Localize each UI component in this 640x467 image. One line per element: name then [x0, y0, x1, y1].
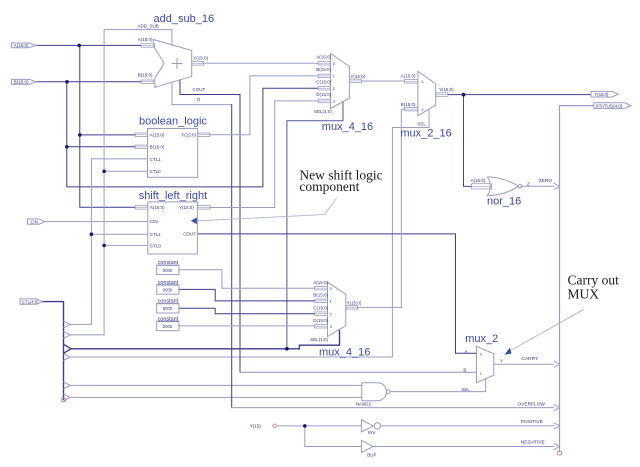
junction Y result node — [462, 93, 466, 97]
svg-text:B(15:0): B(15:0) — [316, 67, 331, 72]
wire mux_2_16 Y to Y(15:0) port and nor_16 — [448, 95, 591, 187]
svg-text:0000: 0000 — [163, 306, 173, 311]
adder add_sub_16 body — [153, 40, 191, 88]
svg-text:B(15:0): B(15:0) — [14, 80, 29, 85]
wire mux_4_16 bottom Y to mux_2_16 B — [358, 109, 405, 307]
wire CTL tap to NAND2 input B — [70, 396, 362, 398]
wire CTL(4:0) port to bus — [43, 302, 64, 400]
status tap CARRY — [554, 361, 560, 367]
svg-text:mux_2: mux_2 — [465, 333, 498, 345]
NAND2 gate body — [362, 383, 387, 401]
svg-text:MUX: MUX — [568, 287, 600, 302]
status tap ZERO — [554, 183, 560, 189]
svg-text:add_sub_16: add_sub_16 — [154, 13, 215, 25]
wire constant2 to mux_4_16 B — [179, 289, 315, 301]
block shift_left_right — [148, 202, 198, 254]
mux_4_16 U1 pin C(15:0) — [316, 80, 336, 92]
svg-text:B(15:0): B(15:0) — [150, 145, 165, 150]
wire SEL riser to mux_4_16 top SEL — [287, 102, 343, 349]
wire add_sub Y to mux_4_16 A — [204, 62, 319, 64]
junction CTL1 riser at shift CTL1 — [90, 232, 94, 236]
nor_16 gate body — [487, 177, 518, 196]
wire shift COUT to mux_2 A — [197, 234, 476, 353]
svg-text:C(15:0): C(15:0) — [313, 305, 329, 310]
svg-text:Y(15:0): Y(15:0) — [595, 92, 609, 97]
svg-text:STATUS(4:0): STATUS(4:0) — [596, 103, 623, 108]
constant 3 — [157, 299, 179, 313]
svg-text:COUT: COUT — [193, 87, 206, 92]
mux_4_16 U2 pin D(15:0) — [313, 318, 332, 329]
svg-text:A(15:0): A(15:0) — [138, 37, 153, 42]
shift pin Y(15:0) — [179, 205, 210, 210]
status tap NEGATIVE — [554, 443, 560, 449]
nor_16 pin A(15:0) — [471, 178, 492, 189]
STATUS bus vertical — [560, 106, 594, 452]
svg-text:component: component — [299, 179, 359, 194]
svg-text:BUF: BUF — [367, 453, 376, 458]
mux_4_16 U2 pin A(15:0) — [313, 280, 332, 291]
adder plus sign — [172, 58, 183, 69]
svg-text:O: O — [197, 97, 201, 102]
constant 2 — [157, 280, 179, 294]
wire CTL tap to mux_2_16 SEL — [70, 109, 429, 357]
status tap OVERFLOW — [554, 404, 560, 410]
svg-text:Y(15:0): Y(15:0) — [193, 55, 208, 60]
mux_4_16 U1 pin D(15:0) — [316, 92, 336, 104]
mux_4_16 U2 pin C(15:0) — [313, 305, 332, 316]
junction CTL0 riser at boolean CTL0 — [102, 170, 106, 174]
output port Y(15:0) — [591, 91, 618, 97]
svg-text:Carry out: Carry out — [568, 272, 620, 287]
svg-text:SEL: SEL — [417, 122, 426, 127]
annotation leader to shift block — [197, 198, 337, 221]
svg-text:D(15:0): D(15:0) — [313, 318, 329, 323]
wire A net riser to boolean A and shift A — [80, 45, 136, 207]
junction B riser at boolean B — [65, 145, 69, 149]
svg-text:CIN: CIN — [31, 219, 38, 224]
svg-text:mux_2_16: mux_2_16 — [400, 128, 451, 140]
Y(15) dangling circle — [273, 424, 277, 428]
bus tap NAND A — [64, 382, 71, 389]
INV gate body — [361, 420, 373, 432]
mux_4_16 U2 body — [328, 282, 346, 336]
bus tap SEL(1:0) — [64, 344, 72, 353]
svg-text:B: B — [463, 367, 466, 372]
svg-text:Y(15:0): Y(15:0) — [179, 205, 194, 210]
svg-text:B(15:0): B(15:0) — [313, 293, 328, 298]
CTL bus dangling end marker — [62, 398, 66, 401]
status tap POSITIVE — [554, 423, 560, 429]
svg-text:A: A — [465, 349, 468, 354]
svg-text:POSITIVE: POSITIVE — [521, 419, 543, 425]
block boolean_logic — [148, 129, 198, 178]
junction CTL0 riser at shift CTL0 — [102, 244, 106, 248]
bus tap CTL to mux_2_16 SEL — [64, 354, 71, 361]
svg-text:C(15:0): C(15:0) — [316, 80, 332, 85]
svg-text:NAND2: NAND2 — [356, 401, 372, 406]
INV output bubble — [374, 423, 380, 429]
wire mux_2 Y to CARRY tap — [494, 363, 554, 365]
svg-text:ZERO: ZERO — [539, 178, 553, 184]
svg-text:nor_16: nor_16 — [487, 196, 521, 208]
svg-text:A(15:0): A(15:0) — [150, 133, 165, 138]
annotation arrow at mux_2 — [505, 348, 512, 355]
wire mux_4_16 Y to mux_2_16 A — [362, 80, 405, 82]
mux_4_16 U1 body — [331, 54, 350, 109]
adder pin B(15:0) — [138, 72, 154, 83]
bus tap NAND B — [64, 394, 71, 401]
svg-text:0000: 0000 — [163, 324, 173, 329]
mux_2_16 pin Y(15:0) — [436, 87, 454, 96]
wire constant3 to mux_4_16 C — [179, 308, 315, 314]
wire SEL(1:0) bus to both mux_4_16 SEL — [71, 330, 340, 349]
boolean pin B(15:0) — [135, 145, 165, 150]
svg-text:A(15:0): A(15:0) — [401, 74, 416, 79]
svg-text:A(15:0): A(15:0) — [471, 178, 486, 183]
svg-text:SEL: SEL — [461, 387, 470, 392]
svg-text:Y(15:0): Y(15:0) — [439, 87, 454, 92]
svg-text:0000: 0000 — [163, 287, 173, 292]
svg-text:B(15:0): B(15:0) — [401, 102, 416, 107]
wire B(15:0) port to add_sub B — [36, 81, 141, 83]
junction SEL bus node — [285, 347, 289, 351]
svg-text:shift_left_right: shift_left_right — [139, 190, 207, 202]
mux_4_16 U1 pin Y(15:0) — [349, 74, 365, 83]
adder pin Y(15:0) — [192, 55, 209, 65]
BUF gate body — [361, 440, 373, 452]
svg-text:Y(15:0): Y(15:0) — [347, 300, 362, 305]
svg-text:Y: Y — [500, 358, 503, 363]
input port CIN — [28, 219, 46, 224]
wire A(15:0) port to add_sub A — [36, 44, 141, 46]
wire constant4 to mux_4_16 D — [179, 325, 315, 327]
wire BUF out to NEGATIVE tap — [373, 446, 554, 448]
wire add_sub O to OVERFLOW — [172, 82, 232, 104]
mux_4_16 U2 pin Y(15:0) — [346, 300, 362, 309]
junction on B wire — [65, 80, 69, 84]
svg-text:CARRY: CARRY — [522, 356, 540, 362]
annotation leader to mux_2 — [510, 309, 585, 351]
boolean pin A(15:0) — [135, 133, 165, 138]
wire constant1 to mux_4_16 A — [179, 270, 315, 288]
wire B net riser to boolean B and mux_4_16 C — [67, 82, 318, 187]
svg-text:A(15:0): A(15:0) — [14, 43, 29, 48]
boolean pin Y(15:0) — [181, 133, 210, 138]
svg-text:CTL1: CTL1 — [150, 157, 162, 162]
mux_4_16 U1 pin B(15:0) — [316, 67, 336, 79]
junction on A wire — [77, 44, 81, 48]
input port B(15:0) — [12, 79, 37, 84]
svg-text:A(15:0): A(15:0) — [313, 280, 328, 285]
wire INV out to POSITIVE tap — [381, 425, 554, 427]
svg-text:A(15:0): A(15:0) — [316, 55, 331, 60]
wire shift Y to mux_4_16 D — [210, 101, 318, 208]
annotation arrow at shift block — [191, 218, 197, 225]
svg-text:CTL1: CTL1 — [150, 232, 162, 237]
svg-text:B(15:0): B(15:0) — [138, 72, 153, 77]
svg-text:INV: INV — [368, 430, 376, 435]
junction A riser at boolean A — [78, 133, 82, 137]
svg-text:A(15:0): A(15:0) — [150, 205, 165, 210]
wire nor_16 Z to ZERO tap — [522, 185, 554, 187]
mux_2 body — [477, 346, 494, 382]
shift pin A(15:0) — [135, 205, 165, 210]
bus tap CTL1 — [64, 321, 71, 328]
svg-text:CIN: CIN — [150, 219, 158, 224]
wire boolean Y to mux_4_16 B — [210, 76, 318, 135]
wire Y(15) to INV and BUF — [276, 426, 361, 447]
svg-text:OVERFLOW: OVERFLOW — [518, 401, 546, 407]
wire CTL tap to NAND2 input A — [70, 384, 362, 386]
svg-text:SEL(1:0): SEL(1:0) — [314, 109, 332, 114]
constant 1 — [157, 260, 179, 274]
svg-text:CTL0: CTL0 — [150, 169, 162, 174]
svg-text:CTL(4:0): CTL(4:0) — [22, 299, 39, 304]
svg-text:Y(15): Y(15) — [250, 424, 262, 429]
svg-text:mux_4_16: mux_4_16 — [322, 121, 373, 133]
wire CTL1 tap to boolean CTL1 and shift CTL1 — [70, 159, 148, 325]
svg-text:0000: 0000 — [163, 268, 173, 273]
wire NAND2 out to mux_2 SEL — [390, 379, 486, 392]
adder pin A(15:0) — [138, 37, 154, 47]
svg-text:Y(15:0): Y(15:0) — [350, 74, 365, 79]
svg-text:SEL(1:0): SEL(1:0) — [310, 337, 328, 342]
svg-text:CTL0: CTL0 — [150, 244, 162, 249]
wire CTL0 tap to boolean CTL0, shift CTL0 and ADD_SUB — [70, 30, 172, 335]
svg-text:Z: Z — [527, 181, 530, 186]
svg-text:boolean_logic: boolean_logic — [139, 116, 207, 128]
input port A(15:0) — [12, 43, 37, 48]
wire CIN port to shift CIN — [45, 221, 148, 223]
svg-text:NEGATIVE: NEGATIVE — [521, 440, 545, 446]
mux_2_16 pin B(15:0) — [401, 102, 425, 112]
nor_16 output bubble — [518, 185, 521, 188]
STATUS bus dangling end marker — [558, 451, 562, 455]
output port STATUS(4:0) — [594, 103, 631, 109]
mux_4_16 U2 pin B(15:0) — [313, 293, 332, 304]
constant 4 — [157, 316, 179, 330]
mux_2_16 body — [418, 71, 436, 115]
svg-text:Y(15:0): Y(15:0) — [181, 133, 196, 138]
bus tap CTL0 — [64, 331, 71, 338]
junction Y(15) node — [303, 424, 307, 428]
mux_4_16 U1 pin A(15:0) — [316, 55, 336, 67]
svg-text:mux_4_16: mux_4_16 — [319, 346, 370, 358]
svg-text:COUT: COUT — [183, 231, 196, 236]
wire add_sub COUT to mux_2 B — [180, 80, 240, 373]
mux_2_16 pin A(15:0) — [401, 74, 425, 84]
input port CTL(4:0) — [20, 299, 43, 304]
NAND2 output bubble — [386, 390, 390, 394]
svg-text:D(15:0): D(15:0) — [316, 92, 332, 97]
